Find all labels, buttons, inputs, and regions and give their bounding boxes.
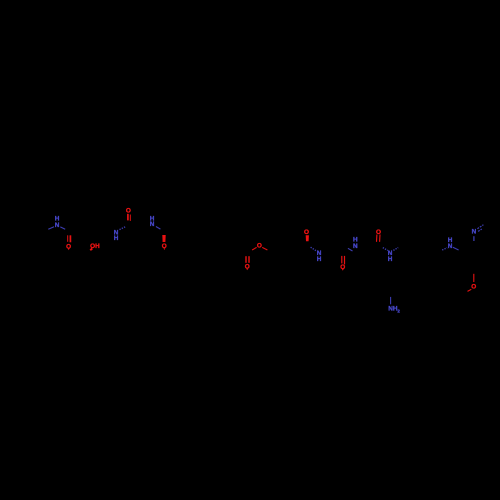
wire N1-C half-bond — [60, 227, 65, 229]
bold wedge C-O3 bond — [162, 235, 165, 242]
wire N5-C half-bond — [348, 248, 353, 251]
wire N1-CH3 half-bond — [48, 227, 54, 230]
hashed wedge C-N6 half-bond — [383, 248, 388, 251]
svg-text:N: N — [353, 243, 358, 250]
wire O4 left half-bond — [252, 247, 257, 250]
wire ring-C6 to O9 half-bond — [473, 274, 475, 282]
carbonyl C=O8 double bond — [377, 235, 381, 242]
amide N3 (H over N) — [150, 215, 155, 228]
svg-text:N: N — [448, 243, 453, 250]
wedge tip to OH — [90, 247, 93, 251]
svg-text:O: O — [257, 242, 262, 249]
svg-text:H: H — [388, 256, 393, 263]
ester carbonyl C=O5 double bond — [246, 256, 249, 263]
amide N2 (N over H) — [114, 229, 119, 242]
wire O4 right half-bond — [262, 247, 267, 250]
hashed wedge C-N4 half-bond — [311, 247, 316, 251]
hashed wedge C-N7 half-bond — [442, 248, 447, 250]
amide N6 (N over H) — [388, 250, 393, 263]
svg-text:N: N — [55, 222, 60, 229]
svg-text:O: O — [304, 229, 309, 236]
hashed wedge N2-C half-bond — [120, 227, 126, 230]
wedge tail under O7 — [342, 269, 344, 271]
svg-text:N: N — [472, 228, 477, 235]
wedge tail under O1 — [68, 248, 70, 250]
amide N5 (H over N) — [353, 237, 358, 251]
svg-text:H: H — [114, 235, 119, 242]
wedge tail under O5 — [246, 269, 248, 271]
glycine carbonyl C=O7 double bond — [342, 256, 345, 265]
svg-text:N: N — [150, 221, 155, 228]
wire N3-C half-bond — [156, 227, 161, 230]
wire N7-C8(ring) half-bond — [453, 247, 459, 250]
wire C-NH2 half-bond — [390, 297, 392, 304]
carbonyl C1=O1 double bond — [68, 235, 71, 242]
aryl amine N7 (H over N) — [448, 237, 453, 250]
amide N1 (H over N, methylamide) — [55, 216, 60, 229]
hashed wedge N6-C half-bond — [393, 248, 398, 251]
svg-text:O: O — [126, 208, 131, 215]
double bond N8=C2 half-bonds — [477, 225, 483, 232]
wedge tail under O3 — [163, 248, 165, 250]
wire N8-C8a half-bond — [473, 236, 475, 241]
amide N4 (N over H) — [317, 250, 322, 263]
carbonyl C2=O2 double bond — [128, 214, 130, 221]
svg-text:O: O — [471, 284, 476, 291]
svg-text:H: H — [317, 256, 322, 263]
wire O9-CH3 half-bond — [468, 289, 472, 291]
bold wedge C-O6 bond — [306, 235, 309, 241]
